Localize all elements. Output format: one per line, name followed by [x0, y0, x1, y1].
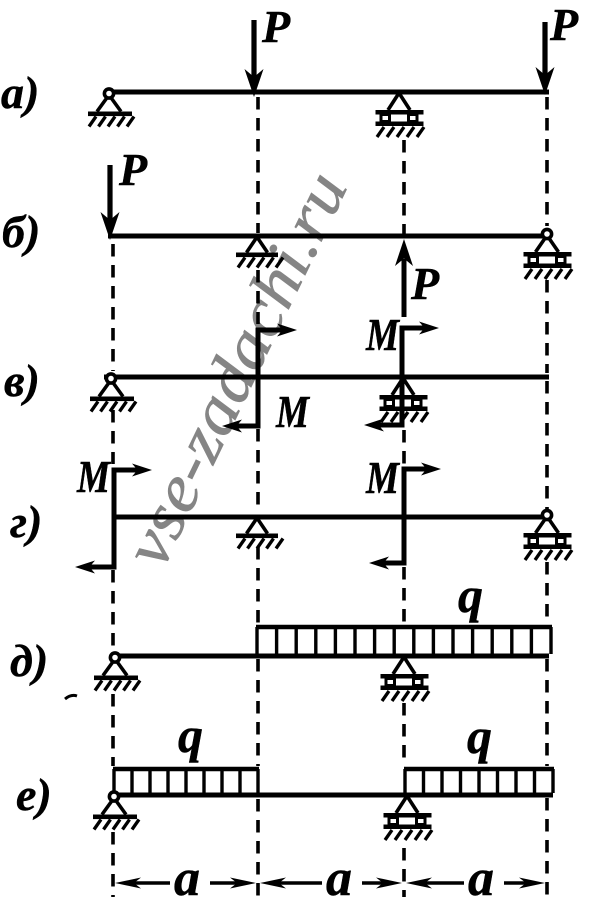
distributed load q row e right [404, 769, 554, 793]
svg-text:P: P [261, 1, 291, 52]
pin support row a left [88, 89, 134, 127]
svg-text:M: M [365, 309, 400, 360]
roller support row e [384, 796, 433, 840]
svg-text:M: M [365, 452, 400, 503]
force P up row b [395, 239, 413, 317]
roller support row d [381, 657, 430, 701]
dashed guide line x1 [111, 244, 115, 897]
svg-text:в): в) [4, 355, 40, 406]
force P row a right [536, 22, 555, 95]
moment M row g left [75, 464, 152, 574]
dashed guide line x2 [256, 97, 260, 897]
svg-text:q: q [458, 567, 483, 623]
beam row d [110, 654, 549, 659]
beam row e [110, 793, 553, 798]
pin support row v left [90, 374, 136, 412]
roller support row v [380, 378, 429, 422]
dimension a left [115, 878, 256, 889]
pin support row b [236, 237, 283, 268]
dashed guide line x4 [545, 97, 549, 897]
svg-text:P: P [410, 258, 440, 309]
moment M row g at x3 [369, 463, 441, 570]
dimension a right [406, 878, 545, 889]
force P row b left [101, 165, 120, 240]
svg-text:q: q [467, 708, 492, 764]
pin support row d left [94, 653, 140, 691]
roller support row g right [524, 510, 573, 560]
moment M row v at x2 [222, 324, 297, 433]
svg-text:M: M [275, 386, 310, 437]
beam row g [113, 515, 543, 520]
dashed guide line x3 [402, 140, 406, 897]
pin support row g [236, 518, 283, 549]
svg-text:a: a [326, 850, 352, 907]
distributed load q row e left [113, 769, 259, 793]
svg-text:q: q [178, 707, 203, 763]
dimension a mid [260, 878, 402, 889]
stray mark below row d label [65, 695, 77, 699]
svg-text:а): а) [1, 67, 39, 118]
beam row a [104, 90, 549, 95]
svg-text:M: M [76, 451, 111, 502]
svg-text:P: P [118, 144, 148, 195]
svg-text:a: a [468, 850, 494, 907]
beam row v [104, 375, 549, 380]
force P row a mid [245, 20, 264, 97]
pin support row e left [93, 792, 139, 830]
roller support row a [376, 93, 425, 137]
svg-text:P: P [549, 0, 579, 50]
svg-text:б): б) [2, 206, 40, 257]
svg-text:е): е) [16, 769, 52, 820]
distributed load q row d [256, 627, 552, 654]
beam row b [108, 234, 543, 239]
moment M row v at x3 [364, 322, 439, 432]
svg-text:д): д) [10, 635, 48, 686]
svg-text:г): г) [10, 496, 42, 547]
roller support row b right [524, 229, 573, 279]
svg-text:a: a [174, 850, 200, 907]
